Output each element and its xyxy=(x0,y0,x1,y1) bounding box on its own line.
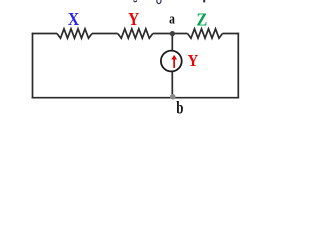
svg-text:Y: Y xyxy=(128,9,139,29)
wire bottom xyxy=(32,97,239,99)
wire top-left segment xyxy=(32,33,57,35)
resistor X xyxy=(57,29,92,38)
wire node a to node b vertical xyxy=(171,34,173,98)
node a junction dot xyxy=(170,31,175,36)
svg-text:Z: Z xyxy=(196,10,207,30)
svg-text:a: a xyxy=(169,10,175,27)
wire right vertical xyxy=(237,33,239,99)
current source arrow xyxy=(171,55,177,68)
cropped text remnant 2 xyxy=(157,0,161,4)
resistor Z xyxy=(188,29,223,38)
svg-text:b: b xyxy=(176,99,183,117)
current source U1 circle xyxy=(161,51,182,72)
cropped text remnant 1 xyxy=(134,1,138,2)
wire between Y and Z through node a xyxy=(153,33,188,35)
svg-text:X: X xyxy=(68,9,79,29)
wire between X and Y xyxy=(92,33,118,35)
wire top-right segment xyxy=(223,33,240,35)
wire left vertical xyxy=(32,33,34,99)
node b junction dot xyxy=(170,94,176,100)
svg-text:Y: Y xyxy=(188,52,199,70)
resistor Y xyxy=(118,29,153,38)
cropped text remnant 3 xyxy=(203,0,205,2)
